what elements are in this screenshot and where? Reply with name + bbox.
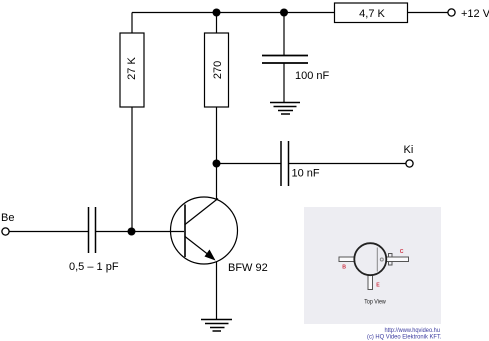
transistor Q1 BFW 92	[171, 197, 268, 274]
capacitor C2 100 nF	[262, 56, 330, 83]
svg-text:100 nF: 100 nF	[295, 70, 330, 82]
terminal Ki	[404, 144, 414, 167]
terminal Be	[1, 212, 14, 235]
wire 270 top	[216, 13, 218, 34]
svg-text:27 K: 27 K	[126, 57, 138, 80]
svg-text:Top View: Top View	[364, 299, 386, 306]
ground GND2 emitter	[201, 320, 232, 332]
resistor R3 4,7 K	[335, 3, 408, 23]
svg-text:0,5 – 1 pF: 0,5 – 1 pF	[69, 261, 119, 273]
svg-text:(c) HQ Video Elektronik KFT.: (c) HQ Video Elektronik KFT.	[367, 334, 442, 341]
resistor R1 27 K	[120, 33, 144, 107]
node collector junction	[213, 160, 221, 168]
resistor R2 270	[205, 33, 229, 107]
wire 100nF bottom	[283, 63, 285, 102]
node base junction	[128, 228, 136, 236]
svg-text:10 nF: 10 nF	[292, 168, 320, 180]
svg-text:4,7 K: 4,7 K	[359, 8, 385, 20]
svg-text:B: B	[342, 265, 346, 271]
capacitor C1 0,5-1 pF	[69, 207, 119, 273]
wire Be to C1	[9, 231, 88, 233]
svg-text:Be: Be	[1, 212, 14, 224]
capacitor C3 10 nF	[281, 141, 320, 186]
wire collector node to 10nF	[217, 163, 281, 165]
wire collector into transistor	[216, 164, 218, 200]
wire 4,7K to +12V terminal	[408, 12, 449, 14]
transistor package top view	[339, 243, 409, 305]
wire base node to transistor	[132, 231, 185, 233]
lead C	[387, 257, 409, 262]
svg-text:Ki: Ki	[404, 144, 414, 156]
svg-text:BFW 92: BFW 92	[228, 262, 268, 274]
wire top rail	[132, 12, 334, 14]
svg-text:C: C	[400, 249, 404, 255]
node junction top-270	[213, 9, 221, 17]
node junction top-100nF	[280, 9, 288, 17]
wire 270 bottom to collector node	[216, 107, 218, 164]
chord line	[376, 248, 378, 272]
index dot	[380, 258, 383, 261]
package circle	[354, 243, 386, 275]
lead B	[339, 257, 355, 262]
wire 100nF top	[283, 13, 285, 56]
terminal +12 V	[448, 8, 489, 20]
wire 10nF to Ki terminal	[289, 163, 407, 165]
wire 27K top	[131, 13, 133, 34]
wire 27K bottom to base node	[131, 107, 133, 232]
svg-text:270: 270	[212, 61, 224, 79]
wire C1 to base node	[96, 231, 132, 233]
svg-text:E: E	[376, 283, 380, 289]
svg-text:+12 V: +12 V	[461, 8, 489, 20]
ground GND1	[270, 103, 300, 115]
lead E	[368, 276, 373, 290]
wire emitter down	[216, 262, 218, 320]
tab marks	[389, 254, 393, 258]
inset panel top view	[304, 207, 441, 324]
